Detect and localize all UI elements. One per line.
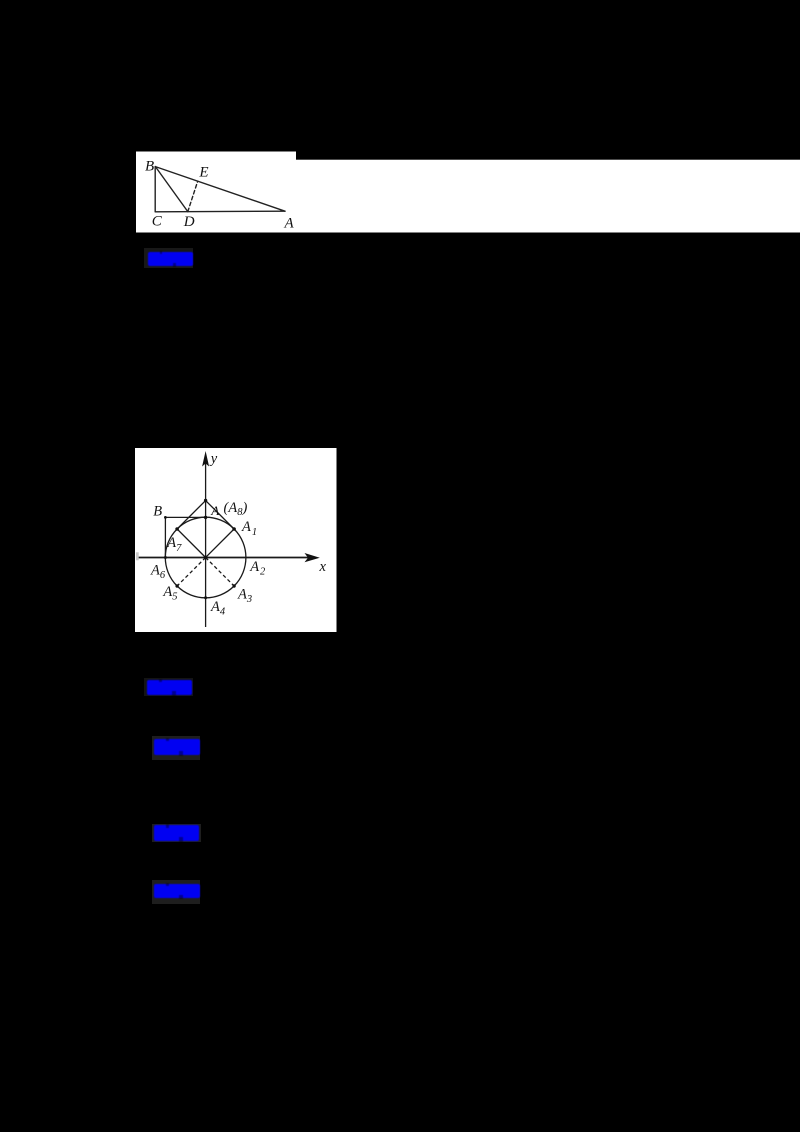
segment BD xyxy=(155,167,187,212)
svg-text:(A8): (A8) xyxy=(224,500,248,518)
svg-text:B: B xyxy=(153,503,162,519)
svg-text:A: A xyxy=(284,216,295,232)
side BC xyxy=(154,167,156,212)
dot A1 xyxy=(232,527,236,531)
dashed segment DE xyxy=(188,181,198,211)
dashed radius O-A3 xyxy=(206,557,235,586)
dot A5 xyxy=(175,584,178,587)
figure 2: unit circle with rotated squares xyxy=(135,448,337,632)
svg-text:y: y xyxy=(209,450,218,466)
diamond O-A7-apex-A1 xyxy=(177,500,234,557)
dot B corner xyxy=(164,516,167,519)
blue tag 3 xyxy=(152,736,200,760)
circle xyxy=(165,517,246,598)
y axis xyxy=(205,459,207,627)
dot apex A xyxy=(204,498,207,501)
dot A6 xyxy=(164,556,167,559)
blue tag 4 xyxy=(152,824,201,843)
blue tag 1 xyxy=(144,248,193,268)
dot center O xyxy=(204,555,208,559)
dot A4 xyxy=(204,596,207,599)
side CA xyxy=(155,210,285,213)
side BA xyxy=(155,167,285,212)
svg-text:B: B xyxy=(145,158,154,174)
square side B-A8 (top horizontal) xyxy=(165,516,205,518)
y axis arrowhead xyxy=(202,451,209,467)
light gray tick at x-axis left end xyxy=(136,552,139,560)
svg-text:D: D xyxy=(183,214,195,230)
white panel wide band xyxy=(296,160,800,233)
svg-text:A: A xyxy=(210,503,219,518)
dot A7 xyxy=(175,527,179,531)
blue tag 2 xyxy=(144,678,193,696)
x axis xyxy=(139,556,313,558)
dashed radius O-A5 xyxy=(177,557,206,586)
svg-text:E: E xyxy=(198,164,208,180)
blue tag 5 xyxy=(152,880,200,905)
svg-text:x: x xyxy=(319,559,327,575)
dot A3 xyxy=(232,584,235,587)
white panel left part xyxy=(136,152,296,233)
svg-text:C: C xyxy=(152,214,163,230)
figure 1: triangle ABC with D on CA and E on AB xyxy=(136,151,800,233)
square side B-A6 (left vertical) xyxy=(164,517,166,557)
x axis arrowhead xyxy=(305,553,320,562)
dot A8 circle top xyxy=(204,515,207,518)
